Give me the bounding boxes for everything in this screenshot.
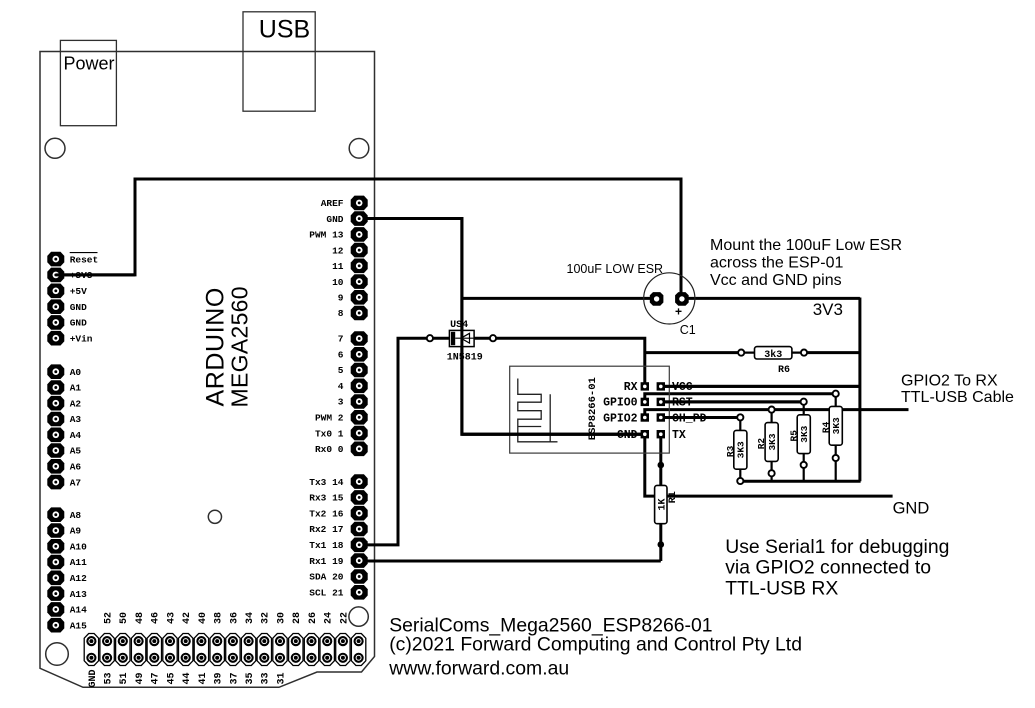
svg-text:GPIO0: GPIO0 (603, 397, 638, 410)
svg-text:8: 8 (338, 308, 344, 319)
svg-text:US4: US4 (450, 320, 468, 331)
svg-text:38: 38 (214, 612, 225, 624)
svg-text:AREF: AREF (321, 198, 344, 209)
svg-text:Tx0 1: Tx0 1 (315, 428, 344, 439)
svg-text:+: + (675, 305, 682, 319)
svg-text:GND: GND (70, 302, 87, 313)
svg-text:Tx3 14: Tx3 14 (309, 477, 344, 488)
svg-text:+Vin: +Vin (70, 333, 93, 344)
svg-text:44: 44 (182, 672, 193, 684)
svg-text:3K3: 3K3 (767, 433, 778, 450)
svg-text:51: 51 (119, 672, 130, 684)
svg-text:R4: R4 (820, 421, 831, 433)
svg-text:Vcc and GND pins: Vcc and GND pins (710, 272, 842, 289)
svg-text:3V3: 3V3 (813, 300, 843, 319)
svg-text:GND: GND (70, 318, 87, 329)
svg-text:PWM 13: PWM 13 (309, 230, 344, 241)
svg-text:1K: 1K (657, 498, 668, 510)
svg-text:SCL 21: SCL 21 (309, 588, 344, 599)
svg-text:A2: A2 (70, 398, 82, 409)
svg-text:31: 31 (276, 672, 287, 684)
svg-text:GPIO2: GPIO2 (603, 412, 638, 425)
svg-text:7: 7 (338, 334, 344, 345)
svg-text:37: 37 (229, 672, 240, 684)
svg-text:48: 48 (135, 612, 146, 624)
svg-text:A10: A10 (70, 542, 87, 553)
svg-text:32: 32 (261, 612, 272, 624)
svg-text:52: 52 (104, 612, 115, 624)
svg-text:A7: A7 (70, 477, 82, 488)
svg-text:A15: A15 (70, 620, 87, 631)
svg-text:9: 9 (338, 293, 344, 304)
svg-text:A6: A6 (70, 462, 82, 473)
svg-text:33: 33 (261, 672, 272, 684)
svg-text:A0: A0 (70, 367, 82, 378)
svg-text:PWM 2: PWM 2 (315, 413, 344, 424)
svg-text:24: 24 (324, 612, 335, 624)
svg-text:45: 45 (166, 672, 177, 684)
svg-text:via GPIO2 connected to: via GPIO2 connected to (725, 557, 931, 579)
svg-text:SDA 20: SDA 20 (309, 572, 344, 583)
svg-text:49: 49 (135, 672, 146, 684)
svg-text:www.forward.com.au: www.forward.com.au (388, 658, 569, 680)
svg-text:GND: GND (893, 499, 930, 517)
svg-text:3: 3 (338, 397, 344, 408)
svg-text:GND: GND (326, 214, 343, 225)
svg-text:Tx1 18: Tx1 18 (309, 540, 344, 551)
svg-text:3k3: 3k3 (764, 349, 782, 361)
svg-text:100uF LOW ESR: 100uF LOW ESR (567, 262, 664, 276)
svg-text:Rx3 15: Rx3 15 (309, 493, 344, 504)
svg-text:Reset: Reset (70, 254, 99, 265)
svg-text:47: 47 (151, 672, 162, 684)
svg-text:ARDUINO: ARDUINO (201, 287, 229, 406)
svg-text:ESP8266-01: ESP8266-01 (587, 377, 599, 440)
svg-text:Rx0 0: Rx0 0 (315, 444, 344, 455)
svg-text:A8: A8 (70, 510, 82, 521)
svg-text:3K3: 3K3 (736, 441, 747, 458)
svg-text:R1: R1 (668, 491, 679, 503)
svg-text:R2: R2 (756, 438, 767, 450)
svg-text:R5: R5 (788, 430, 799, 442)
svg-text:A14: A14 (70, 605, 87, 616)
svg-text:39: 39 (214, 672, 225, 684)
svg-text:5: 5 (338, 365, 344, 376)
svg-text:53: 53 (104, 672, 115, 684)
svg-text:34: 34 (245, 612, 256, 624)
svg-text:26: 26 (308, 612, 319, 624)
svg-text:Rx2 17: Rx2 17 (309, 524, 344, 535)
svg-text:22: 22 (339, 612, 350, 624)
svg-text:TTL-USB RX: TTL-USB RX (725, 578, 838, 600)
svg-text:A13: A13 (70, 589, 87, 600)
svg-text:6: 6 (338, 350, 344, 361)
svg-text:TTL-USB Cable: TTL-USB Cable (901, 389, 1014, 406)
svg-text:R3: R3 (725, 445, 736, 457)
svg-text:RX: RX (624, 381, 638, 394)
svg-text:A1: A1 (70, 383, 82, 394)
svg-text:Tx2 16: Tx2 16 (309, 508, 344, 519)
svg-text:1N5819: 1N5819 (447, 353, 483, 364)
svg-text:10: 10 (332, 277, 344, 288)
svg-text:Rx1 19: Rx1 19 (309, 556, 344, 567)
svg-text:30: 30 (276, 612, 287, 624)
svg-text:A9: A9 (70, 526, 82, 537)
svg-text:28: 28 (292, 612, 303, 624)
svg-text:36: 36 (229, 612, 240, 624)
svg-text:C1: C1 (680, 323, 696, 337)
svg-text:TX: TX (672, 429, 686, 442)
svg-text:A5: A5 (70, 446, 82, 457)
svg-text:USB: USB (259, 16, 310, 44)
svg-text:+5V: +5V (70, 286, 87, 297)
svg-text:50: 50 (119, 612, 130, 624)
svg-text:3K3: 3K3 (831, 417, 842, 434)
svg-text:A12: A12 (70, 573, 87, 584)
svg-text:11: 11 (332, 261, 344, 272)
svg-text:35: 35 (245, 672, 256, 684)
svg-text:41: 41 (198, 672, 209, 684)
svg-text:A3: A3 (70, 414, 82, 425)
svg-text:A4: A4 (70, 430, 82, 441)
svg-text:3K3: 3K3 (799, 425, 810, 442)
svg-text:Power: Power (64, 54, 115, 74)
svg-text:MEGA2560: MEGA2560 (226, 286, 252, 407)
svg-text:across the ESP-01: across the ESP-01 (710, 255, 844, 272)
svg-text:GPIO2 To RX: GPIO2 To RX (901, 373, 998, 390)
svg-text:43: 43 (166, 612, 177, 624)
svg-text:42: 42 (182, 612, 193, 624)
svg-text:A11: A11 (70, 557, 87, 568)
svg-text:GND: GND (88, 669, 99, 687)
svg-text:12: 12 (332, 245, 344, 256)
svg-text:(c)2021 Forward Computing and: (c)2021 Forward Computing and Control Pt… (389, 634, 802, 656)
svg-text:Use Serial1 for debugging: Use Serial1 for debugging (725, 536, 949, 558)
svg-text:Mount the 100uF Low ESR: Mount the 100uF Low ESR (710, 237, 902, 254)
svg-text:40: 40 (198, 612, 209, 624)
svg-text:46: 46 (151, 612, 162, 624)
svg-text:4: 4 (338, 381, 344, 392)
svg-text:R6: R6 (778, 365, 790, 376)
